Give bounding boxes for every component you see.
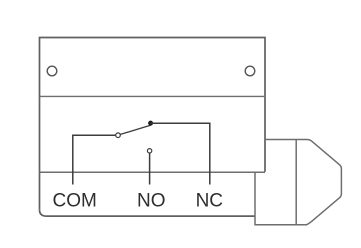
mounting hole left xyxy=(47,66,57,76)
svg-text:NO: NO xyxy=(137,191,166,212)
NO terminal wire xyxy=(149,153,151,184)
junction dot xyxy=(148,121,153,126)
NC terminal wire xyxy=(151,123,210,184)
svg-text:COM: COM xyxy=(53,191,97,212)
plunger housing outline xyxy=(255,140,341,225)
NO contact xyxy=(147,149,151,153)
COM terminal wire xyxy=(73,135,116,184)
terminal base bottom edge xyxy=(40,210,256,216)
terminal cover line xyxy=(40,171,266,173)
switch blade xyxy=(120,125,151,134)
switch body outline xyxy=(40,38,266,210)
pivot contact xyxy=(116,133,121,138)
plunger face line xyxy=(295,140,297,225)
mounting hole right xyxy=(245,66,255,76)
svg-text:NC: NC xyxy=(196,191,223,212)
body divider line upper xyxy=(40,95,266,97)
